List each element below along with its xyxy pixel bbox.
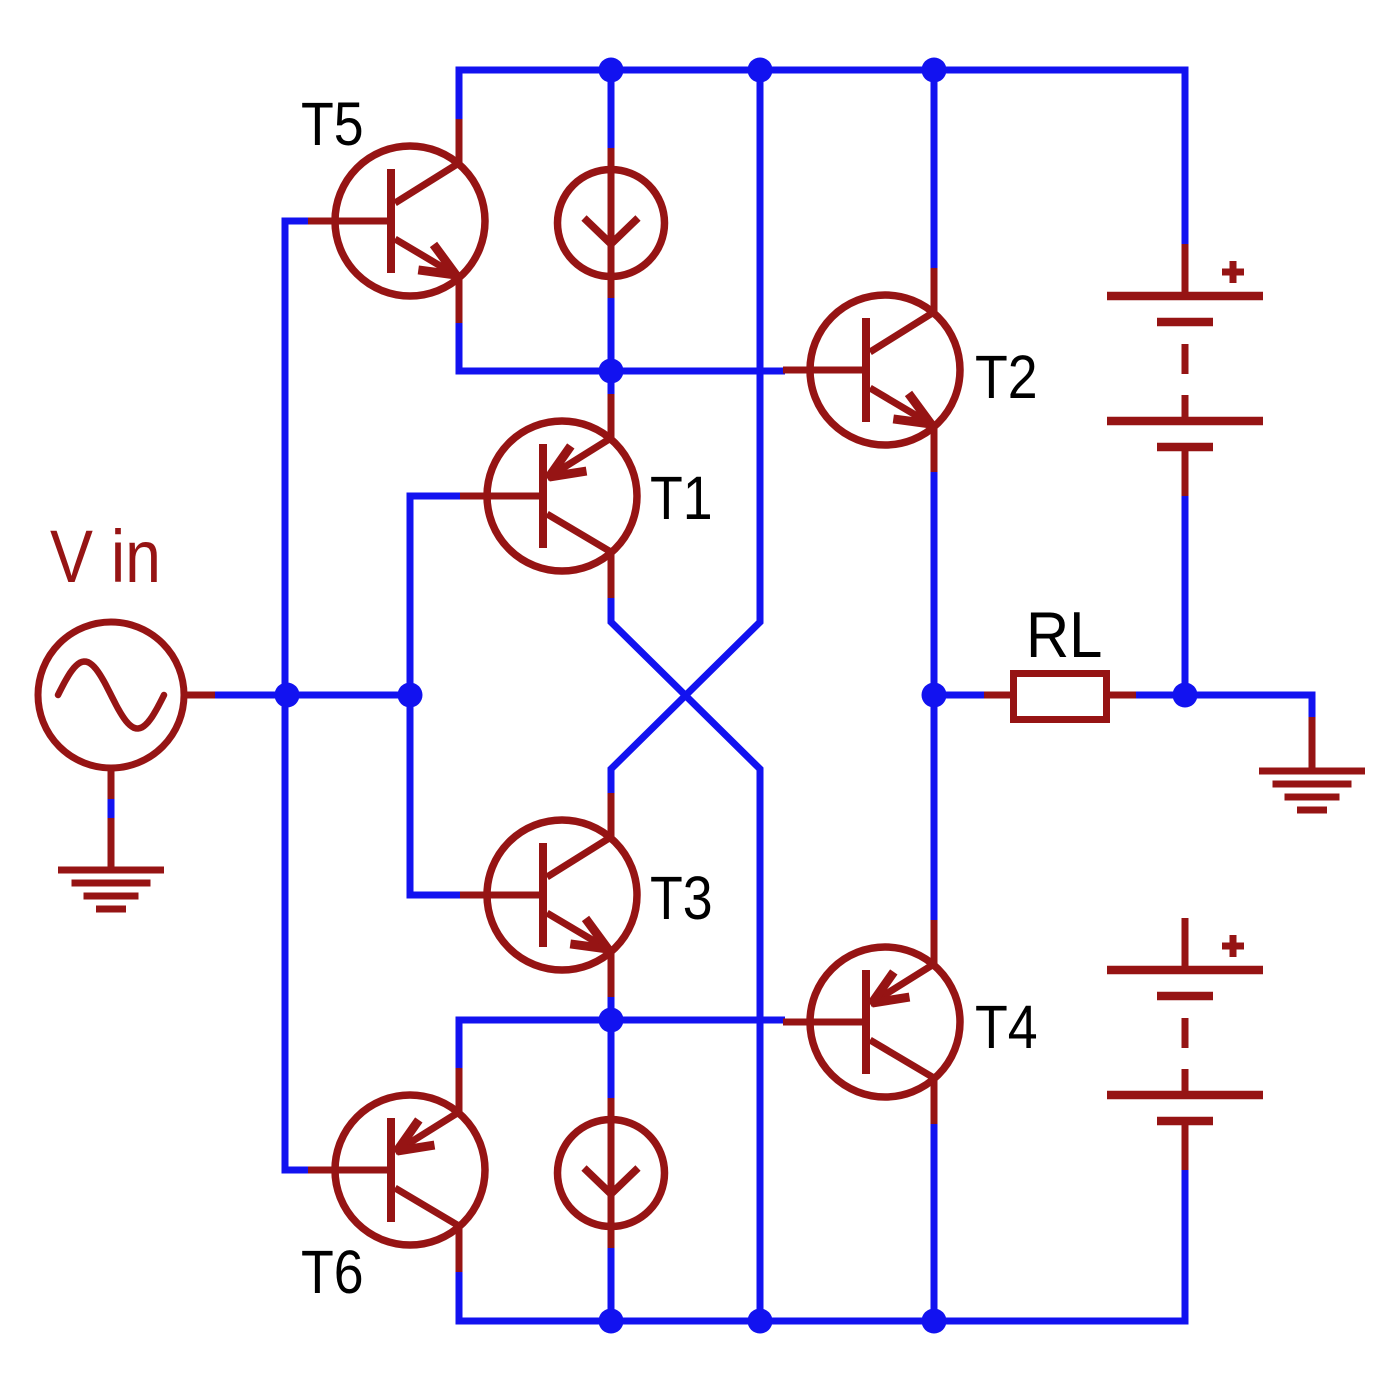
svg-text:T4: T4 — [975, 994, 1038, 1062]
svg-text:T5: T5 — [301, 91, 364, 159]
svg-text:RL: RL — [1026, 599, 1102, 672]
svg-text:T1: T1 — [650, 465, 713, 533]
svg-text:T3: T3 — [650, 865, 713, 933]
svg-text:V in: V in — [50, 515, 161, 598]
svg-text:T6: T6 — [301, 1239, 364, 1307]
svg-text:T2: T2 — [975, 344, 1038, 412]
